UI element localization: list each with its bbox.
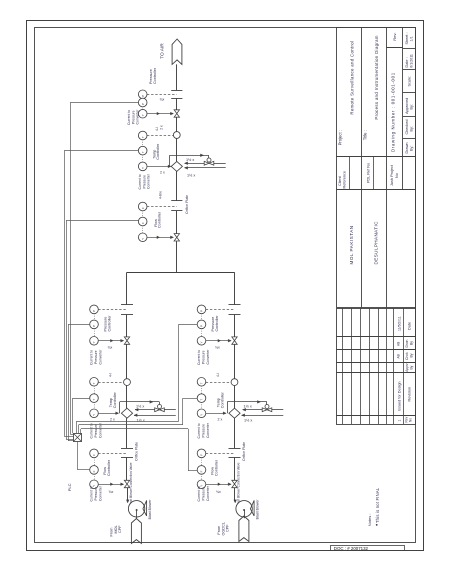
outer border frame (27, 21, 424, 551)
Approved cell divider (403, 116, 416, 118)
flow control valve top assembly (174, 234, 179, 238)
bypass control valve right (262, 408, 267, 412)
notes bullet (376, 524, 378, 526)
Checked cell divider (403, 138, 416, 140)
svg-text:Blast Blower Connection Valve: Blast Blower Connection Valve (129, 462, 133, 506)
svg-text:Converter: Converter (147, 173, 151, 189)
instrument FC right (197, 466, 206, 475)
svg-text:1½ x: 1½ x (187, 174, 195, 178)
svg-text:DOC : # 2007132: DOC : # 2007132 (334, 546, 369, 551)
svg-text:Y: Y (92, 414, 96, 416)
bypass riser (227, 402, 229, 413)
svg-text:Client: Client (338, 175, 342, 186)
revision table row line 2 (351, 308, 353, 424)
signal dashed PT tap (98, 309, 127, 311)
section divider 2 (336, 189, 415, 191)
title block outline (337, 28, 416, 308)
svg-text:DESULPHANATIC: DESULPHANATIC (374, 221, 379, 265)
bypass outlet (135, 409, 155, 411)
pipe segment (234, 418, 236, 448)
svg-text:Rev:: Rev: (392, 33, 397, 41)
instrument FC top assembly (138, 217, 147, 226)
signal dashed TE link (206, 382, 231, 384)
svg-text:CPF: CPF (118, 525, 122, 533)
svg-text:P: P (141, 103, 145, 105)
svg-text:Controller: Controller (107, 459, 111, 476)
svg-text:P: P (141, 95, 145, 97)
revision table row line 7 (393, 308, 395, 424)
svg-text:¾x: ¾x (215, 346, 220, 350)
dotted link (142, 140, 144, 147)
instrument I/P temp top assembly (138, 162, 147, 171)
instrument I/P top assembly (138, 109, 147, 118)
svg-text:¾x: ¾x (216, 490, 221, 494)
svg-text:Current to: Current to (127, 110, 131, 125)
instrument I/P pressure right (197, 337, 206, 346)
svg-text:P: P (92, 310, 96, 312)
svg-text:Converter: Converter (98, 485, 102, 501)
orifice flange left assembly (121, 304, 133, 306)
svg-text:Y: Y (200, 414, 204, 416)
svg-text:Controller: Controller (113, 391, 117, 408)
dotted link (201, 474, 203, 480)
bypass outlet (243, 409, 263, 411)
svg-text:1½ x: 1½ x (186, 158, 194, 162)
instrument I/P temp right (197, 409, 206, 418)
header left drop (126, 272, 128, 305)
svg-text:P: P (200, 310, 204, 312)
svg-text:Converter: Converter (98, 349, 102, 365)
revision table row line 4 (369, 308, 371, 424)
svg-text:2 x: 2 x (160, 171, 165, 175)
svg-text:Revision: Revision (408, 387, 412, 402)
svg-text:No: No (409, 418, 413, 422)
svg-text:Y: Y (141, 167, 145, 169)
svg-text:Converter: Converter (135, 109, 139, 125)
dotted link (94, 474, 96, 480)
Sheet cell divider (403, 48, 416, 50)
signal line from right TC to PLC (183, 398, 198, 400)
svg-text:4-l: 4-l (155, 127, 159, 131)
signal to valve top (147, 113, 173, 115)
revision table row line 1 (342, 308, 344, 424)
svg-text:2 x: 2 x (110, 418, 115, 422)
svg-text:Reference: Reference (343, 171, 347, 189)
svg-text:PDL Ref No: PDL Ref No (367, 163, 371, 183)
bypass riser (119, 402, 121, 413)
svg-text:T: T (92, 399, 96, 401)
svg-text:Y: Y (141, 114, 145, 116)
orifice flange top assembly (171, 90, 182, 92)
dotted link (201, 386, 203, 394)
dotted link (94, 328, 96, 336)
revision table row line 8 (403, 308, 405, 424)
dotted link (201, 402, 203, 409)
revision table column Checked line (336, 362, 415, 364)
instrument TT left (90, 378, 99, 387)
svg-text:Date :: Date : (405, 57, 409, 67)
instrument PT left (90, 305, 99, 314)
inline temperature element top (173, 132, 180, 139)
bypass control valve top assembly (204, 161, 209, 165)
dotted link (94, 386, 96, 394)
bypass drop (266, 402, 268, 408)
signal line from right FC to PLC (188, 470, 198, 472)
svg-text:Y: Y (92, 341, 96, 343)
svg-text:T: T (141, 136, 145, 138)
pipe to blower (234, 488, 236, 502)
orifice plate top assembly (171, 200, 182, 202)
svg-text:By: By (409, 341, 413, 345)
svg-text:Controller: Controller (215, 315, 219, 332)
signal line from right PC to PLC (178, 324, 197, 326)
title block column line A (361, 28, 363, 308)
signal to flow valve top (147, 237, 173, 239)
signal to valve (206, 340, 231, 342)
svg-text:Checked: Checked (405, 120, 409, 135)
svg-text:Date: Date (408, 322, 412, 330)
svg-text:Controller: Controller (156, 143, 160, 160)
pipe segment (234, 457, 236, 480)
svg-text:¾x: ¾x (108, 346, 113, 350)
pipe segment (176, 117, 178, 131)
svg-text:2 x: 2 x (218, 418, 223, 422)
instrument PT right (197, 305, 206, 314)
svg-text:Controller: Controller (107, 315, 111, 332)
instrument TC top assembly (138, 146, 147, 155)
svg-text:AB: AB (397, 354, 401, 358)
header right drop (234, 272, 236, 305)
svg-text:By:: By: (410, 104, 414, 110)
svg-text:PLC: PLC (67, 483, 72, 491)
svg-text:Scale:: Scale: (407, 76, 411, 87)
mixing diamond top assembly (171, 161, 182, 171)
svg-text:¾x: ¾x (109, 490, 114, 494)
svg-text:1/1: 1/1 (410, 36, 414, 41)
svg-text:Drawing Number : 001-001-001: Drawing Number : 001-001-001 (391, 72, 396, 152)
Client Reference sub-divider (349, 156, 351, 190)
svg-text:1½ x: 1½ x (244, 419, 252, 423)
svg-text:T: T (92, 382, 96, 384)
svg-text:4-l: 4-l (109, 373, 113, 377)
svg-text:Current to: Current to (90, 486, 94, 501)
dotted link (94, 313, 96, 320)
diamond outlet right (134, 415, 176, 417)
svg-text:Blast Blower: Blast Blower (148, 499, 152, 520)
svg-text:F: F (200, 470, 204, 472)
signal dashed PT tap (206, 309, 235, 311)
inline temperature element left (124, 379, 131, 386)
off-page connector From MOL CPF arrow (131, 519, 141, 544)
svg-text:Converter: Converter (206, 485, 210, 501)
revision table column Revision line (336, 415, 415, 417)
signal to diamond (98, 413, 118, 415)
Scale cell divider (403, 92, 416, 94)
svg-text:¾x: ¾x (160, 98, 165, 102)
svg-text:By:: By: (410, 126, 414, 132)
pipe segment (176, 211, 178, 234)
svg-text:1: 1 (398, 420, 402, 422)
svg-text:P: P (200, 325, 204, 327)
mixing diamond right (229, 408, 240, 418)
svg-text:Y: Y (200, 341, 204, 343)
svg-text:F: F (200, 454, 204, 456)
section divider 1 (336, 156, 415, 158)
suction valve left (124, 480, 129, 484)
svg-text:Current to: Current to (197, 423, 201, 438)
signal to bottom valve (206, 484, 231, 486)
svg-text:CPF: CPF (226, 524, 230, 532)
dotted link (142, 155, 144, 163)
svg-text:P: P (92, 325, 96, 327)
svg-text:Converter: Converter (206, 349, 210, 365)
svg-text:F: F (141, 222, 145, 224)
bypass line (120, 401, 160, 403)
off-page connector TO AIR arrow (172, 39, 182, 64)
svg-text:By:: By: (410, 146, 414, 152)
control valve pressure right (232, 337, 237, 341)
svg-text:Drawn: Drawn (405, 143, 409, 154)
svg-text:Orifice Plate: Orifice Plate (185, 195, 189, 214)
pipe segment (126, 315, 128, 337)
svg-text:1½ x: 1½ x (137, 419, 145, 423)
svg-text:Issued for Design: Issued for Design (398, 381, 402, 411)
orifice flange right assembly (229, 304, 241, 306)
svg-text:1½ x: 1½ x (244, 405, 252, 409)
dotted link (94, 457, 96, 465)
instrument PC top assembly (138, 98, 147, 107)
title block column line C (402, 28, 404, 190)
signal dashed TE link (98, 382, 123, 384)
svg-text:Controller: Controller (153, 67, 157, 84)
instrument FT right (197, 449, 206, 458)
svg-text:MOL PAKISTAN: MOL PAKISTAN (349, 225, 354, 264)
svg-text:TO AIR: TO AIR (160, 43, 166, 59)
blast blower right (236, 501, 252, 517)
svg-text:Process and Instrumentation Di: Process and Instrumentation Diagram (374, 35, 379, 119)
revision table row line 6 (386, 308, 388, 424)
svg-text:T: T (141, 151, 145, 153)
svg-text:AB: AB (397, 342, 401, 346)
svg-text:F: F (92, 454, 96, 456)
svg-text:Controller: Controller (214, 459, 218, 476)
svg-text:6/1/2011: 6/1/2011 (410, 54, 414, 68)
svg-text:Orifice Plate: Orifice Plate (135, 442, 139, 461)
svg-text:Current to: Current to (90, 423, 94, 438)
svg-text:Sheet :: Sheet : (405, 32, 409, 44)
signal line PLC to left FC (77, 442, 79, 470)
pipe segment (176, 171, 178, 201)
instrument PT top assembly (138, 90, 147, 99)
pipe segment (176, 98, 178, 109)
svg-text:Converter: Converter (206, 422, 210, 438)
pipe segment (126, 457, 128, 480)
signal to diamond top (147, 166, 171, 168)
dotted link (201, 457, 203, 465)
svg-text:1½ x: 1½ x (136, 405, 144, 409)
svg-text:Controller: Controller (220, 391, 224, 408)
bypass drop top (208, 155, 210, 161)
svg-text:Notes :: Notes : (367, 514, 372, 527)
Rev cell divider (386, 47, 403, 49)
svg-text:2 x: 2 x (160, 125, 164, 130)
dotted link (201, 328, 203, 336)
signal line from top PC to PLC bus (71, 102, 139, 104)
bypass line (227, 401, 267, 403)
signal dashed PT tap (147, 94, 177, 96)
header pipe (127, 272, 235, 274)
svg-text:Approved: Approved (405, 98, 409, 114)
svg-text:Blast Blower Connection Valve: Blast Blower Connection Valve (237, 462, 241, 506)
pipe segment (176, 138, 178, 161)
svg-text:By: By (409, 365, 413, 369)
svg-text:4-line: 4-line (159, 191, 163, 199)
signal dashed FT tap (98, 453, 127, 455)
PLC junction box (74, 434, 82, 442)
revision table outline (337, 309, 416, 425)
svg-text:4-l: 4-l (216, 373, 220, 377)
svg-text:Jash Project: Jash Project (390, 164, 394, 186)
orifice plate right assembly (229, 448, 241, 450)
diamond outlet right (242, 415, 284, 417)
instrument I/P flow top assembly (138, 233, 147, 242)
revision table column Approved line (336, 372, 415, 374)
bypass outlet top (185, 163, 205, 165)
title block column line B (386, 28, 388, 308)
instrument PC right (197, 320, 206, 329)
svg-text:Y: Y (141, 238, 145, 240)
inner border frame (35, 28, 416, 543)
suction valve right (232, 480, 237, 484)
PDL Ref No sub-divider (373, 156, 375, 190)
pipe to air (176, 64, 178, 90)
pipe segment (126, 418, 128, 448)
dotted link (142, 226, 144, 234)
instrument TC right (197, 394, 206, 403)
signal to diamond (206, 413, 226, 415)
bypass control valve left (155, 408, 160, 412)
pipe segment (234, 386, 236, 409)
svg-text:11/5/2011: 11/5/2011 (398, 316, 402, 331)
svg-text:F: F (92, 470, 96, 472)
svg-text:Orifice Plate: Orifice Plate (242, 442, 246, 461)
bypass riser top (169, 155, 171, 166)
instrument TT top assembly (138, 131, 147, 140)
control valve pressure left (124, 337, 129, 341)
orifice plate left assembly (121, 448, 133, 450)
instrument PC left (90, 320, 99, 329)
instrument I/P flow left (90, 480, 99, 489)
signal dashed FT tap top (147, 206, 177, 208)
instrument I/P pressure left (90, 337, 99, 346)
bypass drop (159, 402, 161, 408)
revision table column Date line (336, 336, 415, 338)
instrument FC left (90, 466, 99, 475)
instrument TT right (197, 378, 206, 387)
revision table row line 5 (378, 308, 380, 424)
svg-text:Remote Surveillance and Contro: Remote Surveillance and Control (349, 41, 354, 115)
signal line from top FC to PLC bus (66, 220, 139, 222)
svg-text:Controller: Controller (158, 211, 162, 228)
instrument I/P temp left (90, 409, 99, 418)
DOC number strip box (331, 546, 405, 551)
svg-text:T: T (200, 399, 204, 401)
Date cell divider (403, 69, 416, 71)
pipe to blower (127, 488, 129, 502)
off-page connector From OGDCL CPF arrow (239, 516, 249, 542)
inline temperature element right (231, 379, 238, 386)
svg-text:Project :: Project : (337, 130, 342, 145)
signal to valve (98, 340, 123, 342)
instrument FT top assembly (138, 202, 147, 211)
svg-text:No: No (395, 173, 399, 178)
revision table column Drawn line (336, 349, 415, 351)
instrument FT left (90, 449, 99, 458)
svg-text:Current to: Current to (197, 486, 201, 501)
blast blower left (128, 501, 144, 517)
pipe segment (126, 386, 128, 409)
dotted link (201, 313, 203, 320)
svg-text:This is not FINAL: This is not FINAL (375, 487, 380, 523)
signal line from top TC to PLC bus (65, 150, 139, 152)
signal dashed TE link (147, 135, 174, 137)
signal line from left TC to PLC bus (73, 398, 91, 400)
diamond outlet right top (185, 167, 226, 169)
instrument I/P flow right (197, 480, 206, 489)
instrument TC left (90, 394, 99, 403)
svg-text:By: By (409, 353, 413, 357)
pipe segment (234, 315, 236, 337)
control valve top assembly (174, 110, 179, 114)
pipe down to header (176, 241, 178, 272)
svg-text:Current to: Current to (90, 350, 94, 365)
svg-text:Current to: Current to (197, 350, 201, 365)
signal dashed FT tap (206, 453, 235, 455)
svg-text:Blast Blower: Blast Blower (256, 499, 260, 520)
dotted link (142, 211, 144, 218)
dotted link (94, 402, 96, 409)
svg-text:F: F (141, 207, 145, 209)
signal to bottom valve (98, 484, 123, 486)
svg-text:T: T (200, 382, 204, 384)
revision table row line 3 (360, 308, 362, 424)
mixing diamond left (121, 408, 132, 418)
svg-text:Title :: Title : (363, 130, 368, 140)
dotted link (142, 107, 144, 110)
signal line from left PC to PLC bus (68, 324, 90, 326)
bypass line top (170, 155, 209, 157)
svg-text:Current to: Current to (138, 174, 142, 189)
